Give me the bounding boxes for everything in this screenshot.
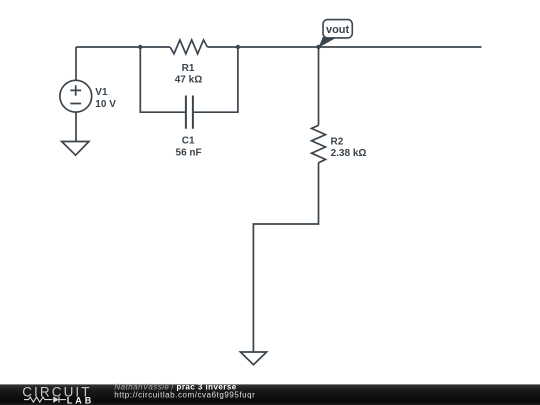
resistor R2 (312, 125, 326, 163)
svg-text:56 nF: 56 nF (176, 148, 202, 159)
voltage source V1 (60, 80, 92, 112)
wire V1 top lead (75, 47, 77, 80)
svg-text:10 V: 10 V (95, 99, 116, 110)
footer bar (0, 384, 540, 405)
svg-text:47 kΩ: 47 kΩ (175, 74, 202, 85)
svg-text:C1: C1 (182, 136, 195, 147)
svg-text:http://circuitlab.com/cva6tg99: http://circuitlab.com/cva6tg995fuqr (114, 390, 255, 399)
svg-text:R1: R1 (182, 63, 195, 74)
CircuitLab logo resistor-diode line (24, 397, 66, 403)
wire R2 top lead (318, 47, 320, 125)
wire C1 right branch (194, 47, 238, 112)
vout flag box (323, 20, 352, 38)
ground (R2 branch) (240, 352, 266, 365)
capacitor C1 (186, 96, 193, 129)
wire top rail right of R1 (207, 46, 481, 48)
node B (R1/C1 right junction) (236, 45, 240, 49)
node A (R1/C1 left junction) (138, 45, 142, 49)
resistor R1 (170, 40, 207, 54)
wire top rail left of R1 (76, 46, 170, 48)
CircuitLab logo diode (53, 396, 59, 402)
svg-text:V1: V1 (95, 87, 108, 98)
svg-text:vout: vout (326, 24, 350, 36)
wire V1 bottom lead (75, 112, 77, 141)
node vout junction (316, 45, 320, 49)
wire C1 left branch (140, 47, 185, 112)
vout flag pointer (319, 37, 337, 48)
svg-text:R2: R2 (331, 136, 344, 147)
wire R2 bottom lead to ground (253, 163, 318, 352)
ground (V1) (62, 142, 89, 156)
svg-text:LAB: LAB (67, 395, 95, 405)
svg-text:2.38 kΩ: 2.38 kΩ (331, 148, 367, 159)
